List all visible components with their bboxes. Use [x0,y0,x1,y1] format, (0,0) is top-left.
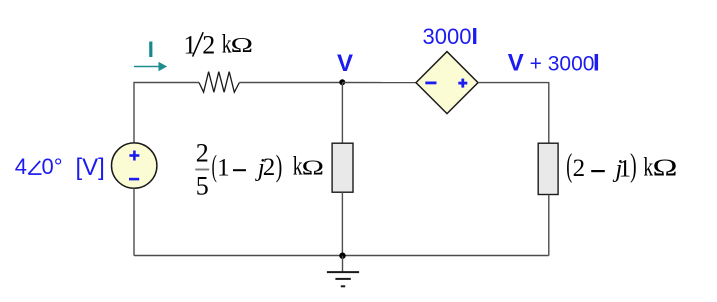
svg-text:0°: 0° [42,154,63,179]
dependent source minus terminal [425,82,436,85]
dependent source U1 diamond (CCVS 3000I) [416,52,478,114]
svg-text:I: I [148,37,154,62]
svg-text:1: 1 [619,155,632,182]
svg-text:5: 5 [196,172,209,201]
svg-text:[V]: [V] [76,154,105,181]
svg-text:Ω: Ω [231,33,253,57]
svg-text:2: 2 [196,139,209,168]
independent source V1 4 angle 0 circle [112,143,157,188]
svg-text:2: 2 [573,155,586,182]
svg-text:3000I: 3000I [423,23,478,49]
svg-text:1: 1 [183,31,196,60]
svg-text:Ω: Ω [653,155,678,181]
ground [327,256,359,287]
svg-text:(: ( [566,147,572,183]
resistor R1 zigzag 1/2 kOhm [199,72,239,93]
wire: right resistor to bottom rail [548,195,550,256]
svg-text:4: 4 [15,154,27,179]
junction dot at ground node [339,253,345,259]
dependent source plus terminal [458,79,467,88]
value label (2 - j1) kOhm [566,147,677,183]
svg-text:Ω: Ω [302,155,324,179]
wire: R1 to node V [239,82,342,84]
node V junction dot [339,79,345,85]
value label 2/5 (1 - j2) kOhm [195,139,324,201]
source minus sign [129,178,139,181]
svg-text:2: 2 [263,154,276,181]
source plus sign [129,151,139,161]
wire: node V to dependent source [342,82,416,84]
svg-text:): ) [276,148,283,183]
resistor R3 (2 - j1) kOhm body [538,143,558,194]
svg-text:2: 2 [202,30,215,59]
wire: node V down to middle resistor [341,83,343,144]
wire: dependent source to right branch [478,83,549,144]
wire: source bottom to bottom rail [133,188,135,255]
wire: bottom rail [134,255,549,257]
svg-text:1: 1 [217,154,230,181]
svg-text:): ) [630,147,637,183]
resistor R2 (2/5)(1-j2) kOhm body [332,143,353,192]
svg-text:(: ( [212,149,217,183]
wire: top-left horizontal from source branch to resistor R1 [134,83,199,143]
source value label 4 angle 0 deg [V] [15,154,105,181]
wire: middle resistor to ground junction [341,192,343,255]
value label 1/2 kOhm [183,30,253,59]
svg-text:V: V [337,50,353,77]
current arrow [134,62,167,72]
svg-text:V + 3000I: V + 3000I [508,50,600,77]
